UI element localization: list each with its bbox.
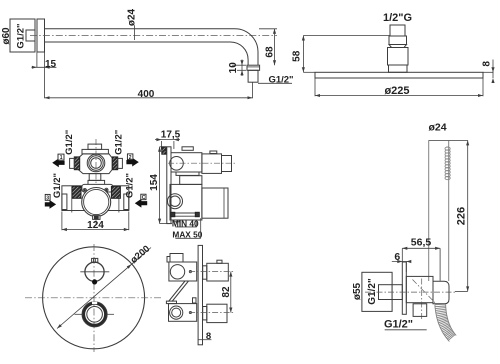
diverter left stub (70, 158, 75, 168)
bracket centerline vertical (421, 279, 423, 320)
dim 10 (232, 64, 246, 66)
dim 154 (160, 146, 167, 148)
arm pipe outer wall (45, 29, 259, 65)
dim 226 top line (429, 139, 468, 141)
side top valve body (171, 153, 202, 172)
arm end nut (247, 65, 260, 70)
svg-text:G1/2": G1/2" (64, 130, 75, 155)
svg-text:C: C (142, 195, 146, 201)
top knob body (207, 263, 229, 281)
head thread 1/2G (390, 25, 405, 36)
dim ø200 diagonal (57, 248, 151, 329)
diverter right nut (112, 157, 117, 170)
diverter knob circle (85, 262, 104, 281)
side top valve step (176, 172, 199, 175)
svg-text:3: 3 (46, 195, 49, 201)
trim side top valve (169, 262, 197, 281)
outlet thread stub (379, 285, 403, 300)
bracket centerline horizontal (365, 291, 455, 293)
flow arrow bottom-left (45, 200, 56, 209)
hand shower handle left edge (428, 140, 430, 281)
arm outlet tail G1/2 (248, 70, 258, 82)
mixer top cap (88, 144, 102, 149)
bottom knob centerline (189, 312, 233, 314)
mixer body right cap (124, 194, 129, 210)
mixer centerline vertical (95, 139, 97, 224)
volume knob side ticks (75, 313, 84, 315)
head lower collar (389, 65, 408, 72)
head upper body (388, 48, 409, 66)
head nut (389, 36, 407, 45)
port tag square top-left (58, 154, 64, 160)
svg-text:58: 58 (292, 50, 303, 62)
side top valve tab (182, 147, 193, 151)
dim ø225 (314, 78, 316, 96)
mixer neck collar (88, 180, 105, 185)
mixer neck tube (89, 174, 101, 181)
svg-text:15: 15 (45, 59, 57, 70)
port tag square top-right (127, 154, 132, 160)
thermostat big circle (82, 188, 111, 217)
mixer mounting plate side (167, 147, 171, 224)
svg-text:G1/2": G1/2" (125, 173, 136, 198)
body right nut hatched (111, 186, 120, 198)
svg-text:8: 8 (482, 61, 493, 67)
bottom knob neck (203, 307, 207, 320)
svg-text:G1/2": G1/2" (114, 130, 125, 155)
side lower drum (202, 188, 228, 218)
dim 8 head plate (483, 71, 494, 73)
dim 124 (61, 212, 63, 231)
dim 82 (230, 272, 232, 313)
trim plate horizontal centerline (25, 297, 161, 299)
mixer body left cap (62, 194, 67, 210)
svg-text:ø60: ø60 (1, 27, 12, 45)
arm centerline (30, 34, 277, 36)
mixer top collar (82, 149, 108, 154)
trim side top valve circle (170, 265, 184, 279)
svg-text:G1/2": G1/2" (384, 319, 413, 331)
outlet nipple (413, 304, 427, 317)
svg-text:124: 124 (87, 220, 104, 231)
side cartridge cap (222, 156, 232, 172)
top knob nub (217, 260, 222, 263)
mixer body screw plate (82, 184, 113, 192)
head plate (315, 72, 483, 78)
svg-text:68: 68 (265, 46, 276, 58)
svg-text:1: 1 (60, 155, 63, 161)
diverter knob tab (92, 258, 98, 262)
svg-text:226: 226 (456, 207, 468, 225)
dim 68 (259, 28, 277, 30)
shower arm wall flange body (10, 19, 35, 52)
body screw left (83, 188, 86, 191)
body screw right (105, 188, 108, 191)
flexible hose ribbed (435, 305, 450, 342)
lower valve screw dot (189, 311, 191, 313)
label MAX 50 (200, 218, 202, 238)
trim plate circle ø200 (43, 247, 145, 349)
port tag square bottom-left (45, 194, 50, 200)
svg-text:82: 82 (221, 286, 232, 298)
trim side lower tab (193, 298, 197, 303)
svg-text:154: 154 (149, 174, 160, 191)
dim 15 (32, 66, 57, 68)
side lower port circle (168, 194, 183, 209)
svg-text:ø24: ø24 (428, 122, 446, 134)
dim 15 extension lines (36, 53, 38, 68)
dim ø24 leader (134, 26, 136, 40)
label G1/2 arm outlet (258, 82, 292, 84)
side cartridge knob (210, 151, 217, 154)
dim 226 (467, 140, 469, 291)
diverter knob cross line (80, 271, 109, 273)
trim side top tab (170, 254, 183, 263)
svg-text:1/2"G: 1/2"G (383, 12, 412, 24)
svg-text:ø225: ø225 (384, 85, 409, 97)
dim 58 (303, 35, 390, 37)
volume knob rings (84, 303, 106, 325)
drain plug (93, 216, 100, 220)
svg-text:2: 2 (129, 155, 132, 161)
flow arrow bottom-right (135, 199, 147, 208)
handle hose coil texture (445, 147, 450, 150)
trim plate side (198, 245, 202, 344)
outlet flange plate (402, 262, 406, 314)
svg-text:400: 400 (138, 89, 155, 100)
diverter right stub (118, 158, 123, 168)
svg-text:ø24: ø24 (127, 8, 138, 26)
trim side lower valve circle (170, 306, 183, 319)
side cartridge (202, 154, 222, 174)
diverter left nut (74, 157, 79, 170)
head swivel ring (389, 45, 407, 48)
hand shower handle right edge (448, 140, 450, 281)
svg-text:ø55: ø55 (352, 282, 363, 300)
side lower valve body (170, 184, 202, 220)
mixer body cylinder (62, 186, 129, 211)
lever foot pad (166, 301, 176, 304)
bracket centerline diagonal (413, 280, 436, 303)
body left nut hatched (72, 186, 81, 198)
svg-text:10: 10 (228, 62, 239, 74)
trim plate vertical centerline (93, 244, 95, 352)
flange thread stub (26, 30, 35, 41)
side bottom tab (174, 220, 179, 222)
diverter port circles (87, 154, 105, 172)
port tag square bottom-right (141, 194, 146, 200)
mixer diverter body (78, 154, 112, 174)
bracket hook block (433, 281, 449, 304)
svg-text:G1/2": G1/2" (16, 23, 27, 48)
side top centerline (168, 162, 235, 164)
wall plate (37, 19, 45, 52)
svg-text:G1/2": G1/2" (367, 278, 378, 305)
svg-text:56,5: 56,5 (411, 236, 432, 248)
bracket body (406, 276, 433, 302)
trim side lever strut (169, 281, 186, 302)
arm pipe inner wall (45, 42, 249, 65)
svg-text:G1/2": G1/2" (268, 74, 293, 85)
volume knob notch (92, 302, 97, 304)
wall hatch (162, 147, 166, 154)
side middle block (180, 176, 202, 185)
bottom knob body (207, 304, 227, 322)
lower valve bottom flange (173, 212, 199, 214)
trim side lower valve (169, 304, 197, 322)
flow arrow top-right (126, 158, 138, 167)
flow arrow top-left (52, 158, 64, 167)
top valve screw dot (189, 271, 191, 273)
top knob neck (203, 266, 207, 279)
outlet wall union square (362, 272, 392, 311)
side top port circle (170, 157, 184, 171)
svg-text:8: 8 (206, 331, 211, 342)
svg-text:G1/2": G1/2" (52, 173, 63, 198)
dim 400 (252, 83, 254, 99)
diverter knob indicator (93, 280, 97, 284)
top knob centerline (189, 271, 233, 273)
